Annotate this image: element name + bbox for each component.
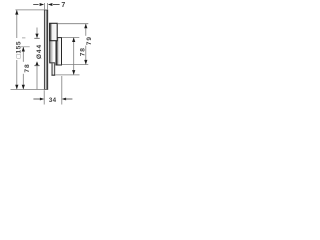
- dim 7 right arrow with tail: [48, 3, 60, 6]
- svg-text:34: 34: [49, 97, 57, 104]
- dim line 78 (vertical, left inner): [19, 47, 29, 90]
- dim 34 left arrow: [33, 98, 44, 101]
- extension line handle top to right (78 dim): [62, 37, 80, 39]
- svg-text:7: 7: [61, 2, 65, 9]
- svg-text:78: 78: [24, 63, 31, 72]
- dim 7 left arrow: [33, 3, 44, 6]
- extension line lower box bottom to right (78 dim): [55, 74, 79, 76]
- extension line plate front edge up (7 dim): [47, 3, 49, 10]
- top extension line (plate top, for 155 dim): [15, 9, 44, 11]
- dim 34 right arrow: [62, 98, 73, 101]
- dim line 78 (vertical, right inner): [72, 37, 75, 74]
- svg-text:79: 79: [86, 36, 93, 45]
- upper knob (profile): [50, 23, 58, 40]
- dim line □155 (vertical, left outer): [15, 10, 18, 90]
- extension line for 34 left (from plate back bottom): [43, 90, 45, 104]
- wall plate (side profile, chrome bar): [44, 10, 48, 90]
- dim line 79 (vertical, right outer): [84, 24, 87, 65]
- extension line knob top to right (79 dim): [57, 23, 88, 25]
- svg-text:Ø44: Ø44: [36, 44, 43, 59]
- extension line for 34 right (from handle front): [61, 76, 63, 105]
- lower small box: [51, 63, 55, 75]
- bottom extension line (plate bottom): [11, 89, 48, 91]
- extension line plate back edge up (7 dim): [43, 3, 45, 10]
- lower handle (profile, behind knob): [56, 38, 62, 65]
- extension line handle bottom to right (79 dim): [62, 64, 89, 66]
- dim line Ø44 (vertical, mid-left): [22, 28, 40, 90]
- svg-text:□155: □155: [15, 41, 22, 58]
- base bottom step: [50, 41, 55, 63]
